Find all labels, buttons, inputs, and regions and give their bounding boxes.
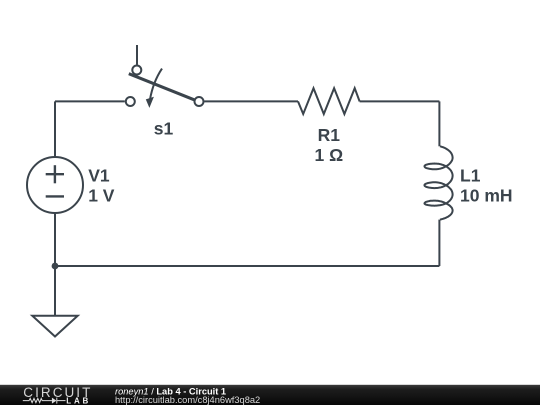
wire left vertical to V1 [54,101,56,157]
junction node [52,263,59,270]
inductor L1 [425,146,453,219]
wire top-left horizontal [55,100,125,102]
switch s1 [126,45,204,108]
wire right vertical to inductor [438,101,440,146]
svg-text:1 V: 1 V [88,186,115,206]
wire bottom rail [55,265,439,267]
ground [32,316,77,337]
svg-text:http://circuitlab.com/c8j4n6wf: http://circuitlab.com/c8j4n6wf3q8a2 [115,395,260,405]
svg-text:V1: V1 [88,165,110,185]
svg-text:1 Ω: 1 Ω [314,145,343,165]
svg-text:LAB: LAB [66,397,91,405]
voltage source V1 [27,157,83,213]
footer title text [115,386,260,405]
footer bar [0,385,540,405]
svg-text:s1: s1 [154,119,174,139]
wire resistor to right corner [360,100,440,102]
resistor R1 [298,88,360,114]
wire junction to ground [54,266,56,316]
wire V1 to junction [54,213,56,266]
wire inductor to bottom corner [438,220,440,266]
footer logo CIRCUIT LAB [23,385,93,405]
svg-text:L1: L1 [460,165,481,185]
wire switch to resistor [205,100,299,102]
svg-text:R1: R1 [318,125,341,145]
svg-text:10 mH: 10 mH [460,186,513,206]
